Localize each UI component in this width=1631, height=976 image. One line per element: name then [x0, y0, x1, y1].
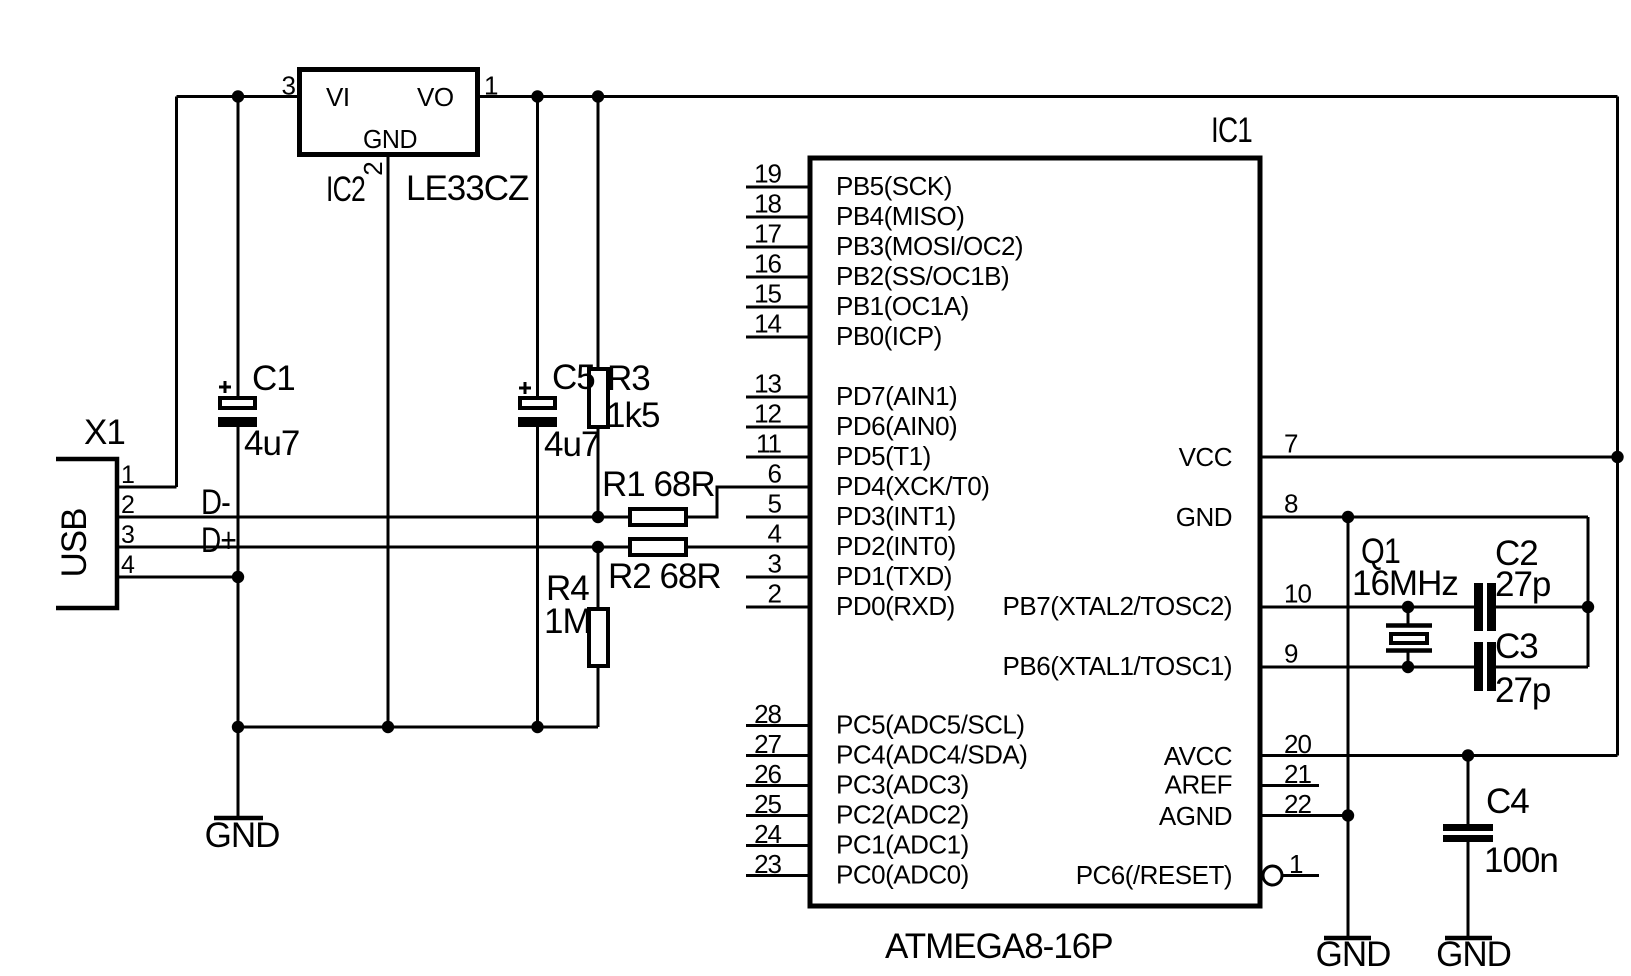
ground symbol below C1	[205, 816, 280, 855]
ground symbol below AGND drop	[1316, 935, 1391, 974]
wire IC pin 3 stub	[746, 576, 810, 579]
regulator label IC2	[326, 170, 365, 209]
svg-text:PD7(AIN1): PD7(AIN1)	[836, 381, 957, 411]
IC pin number 23	[754, 849, 781, 879]
svg-text:PB7(XTAL2/TOSC2): PB7(XTAL2/TOSC2)	[1003, 591, 1232, 621]
IC pin label PD4(XCK/T0)	[836, 471, 989, 501]
wire R2 to IC pin 4	[688, 546, 810, 549]
IC pin number 9	[1284, 639, 1298, 669]
junction node GND rail at regulator	[382, 721, 394, 733]
svg-text:AGND: AGND	[1159, 801, 1232, 831]
wire top 3V3 rail right segment	[478, 95, 1618, 98]
svg-text:27: 27	[754, 729, 781, 759]
wire D+ net	[117, 546, 628, 549]
svg-text:27p: 27p	[1495, 565, 1550, 604]
connector X1 pin number 2	[121, 491, 135, 519]
svg-text:PB1(OC1A): PB1(OC1A)	[836, 291, 969, 321]
svg-text:R3: R3	[607, 359, 650, 398]
svg-text:13: 13	[754, 369, 781, 399]
wire AGND pin 22	[1258, 814, 1348, 817]
svg-text:4: 4	[121, 551, 135, 579]
svg-text:PC3(ADC3): PC3(ADC3)	[836, 770, 969, 800]
svg-text:16MHz: 16MHz	[1352, 564, 1458, 603]
capacitor C1 label	[252, 359, 295, 398]
IC pin number 2	[768, 579, 782, 609]
IC pin label VCC	[1179, 442, 1232, 472]
wire XTAL1 pin 9 right segment	[1496, 666, 1588, 669]
IC pin number 3	[768, 549, 782, 579]
svg-text:1: 1	[1289, 849, 1303, 879]
capacitor C2 value 27p	[1495, 565, 1550, 604]
IC pin label PB4(MISO)	[836, 201, 964, 231]
IC pin number 27	[754, 729, 781, 759]
svg-text:14: 14	[754, 309, 781, 339]
wire IC pin 11 stub	[746, 456, 810, 459]
svg-text:1k5: 1k5	[606, 396, 659, 435]
resistor R3 label	[607, 359, 650, 398]
wire RESET pin 1 stub	[1283, 874, 1319, 877]
wire bottom GND rail	[238, 726, 598, 729]
IC reset pin inversion circle	[1263, 866, 1282, 885]
svg-text:12: 12	[754, 399, 781, 429]
svg-text:D+: D+	[201, 521, 236, 560]
svg-text:PC5(ADC5/SCL): PC5(ADC5/SCL)	[836, 710, 1025, 740]
IC pin label PD1(TXD)	[836, 561, 952, 591]
IC pin label PD2(INT0)	[836, 531, 956, 561]
IC pin label PC3(ADC3)	[836, 770, 969, 800]
svg-text:PB4(MISO): PB4(MISO)	[836, 201, 964, 231]
svg-text:PC1(ADC1): PC1(ADC1)	[836, 830, 969, 860]
wire IC pin 28 stub	[746, 724, 810, 727]
IC pin label PD3(INT1)	[836, 501, 956, 531]
voltage regulator IC2 box	[300, 70, 478, 155]
svg-text:IC2: IC2	[326, 170, 365, 209]
svg-text:IC1: IC1	[1211, 111, 1252, 150]
wire IC pin 24 stub	[746, 844, 810, 847]
svg-text:PB2(SS/OC1B): PB2(SS/OC1B)	[836, 261, 1009, 291]
wire XTAL2 pin 10 left segment	[1258, 606, 1474, 609]
wire IC pin 23 stub	[746, 874, 810, 877]
IC pin label PC6(/RESET)	[1076, 860, 1232, 890]
connector X1 pin number 4	[121, 551, 135, 579]
capacitor C5 value 4u7	[544, 425, 599, 464]
resistor R1	[630, 509, 686, 525]
svg-text:16: 16	[754, 249, 781, 279]
capacitor C2 label	[1495, 534, 1538, 573]
regulator pin number 1	[484, 71, 498, 101]
capacitor C4 value 100n	[1484, 841, 1558, 880]
wire C1 branch upper	[237, 97, 240, 399]
wire IC pin 27 stub	[746, 754, 810, 757]
wire IC pin 19 stub	[746, 186, 810, 189]
IC1 reference label	[1211, 111, 1252, 150]
junction node VCC right rail	[1611, 451, 1623, 463]
wire C4 top connection	[1467, 756, 1470, 825]
wire GND stem below C1	[237, 727, 240, 816]
wire R4 top connection to D+	[597, 547, 600, 607]
IC pin label PD5(T1)	[836, 441, 931, 471]
wire C1 branch lower to GND rail	[237, 426, 240, 727]
regulator pin name GND	[363, 124, 417, 154]
wire IC pin 17 stub	[746, 246, 810, 249]
wire R1 to IC pin 6 jog	[688, 487, 810, 517]
svg-text:18: 18	[754, 189, 781, 219]
IC pin number 26	[754, 759, 781, 789]
IC pin number 8	[1284, 489, 1298, 519]
junction node on rail at C5	[531, 90, 543, 102]
crystal Q1 label	[1361, 532, 1400, 571]
regulator pin number 2 rotated	[358, 162, 388, 176]
svg-text:VI: VI	[326, 82, 350, 112]
svg-text:3: 3	[768, 549, 782, 579]
regulator pin number 3	[282, 71, 296, 101]
resistor R2	[630, 539, 686, 555]
svg-text:PD0(RXD): PD0(RXD)	[836, 591, 955, 621]
IC U1 ATMEGA8 box	[810, 158, 1260, 906]
IC pin label PB2(SS/OC1B)	[836, 261, 1009, 291]
IC pin number 14	[754, 309, 781, 339]
capacitor C1 polarized	[218, 381, 257, 427]
resistor R4	[589, 609, 608, 666]
crystal Q1 value 16MHz	[1352, 564, 1458, 603]
wire far right VCC rail vertical	[1616, 97, 1619, 756]
IC pin number 22	[1284, 789, 1311, 819]
IC pin label PB5(SCK)	[836, 171, 952, 201]
capacitor C2 plates	[1474, 583, 1496, 631]
wire R3 to D- node	[597, 428, 600, 517]
junction node AVCC at C4	[1462, 749, 1474, 761]
svg-text:PD3(INT1): PD3(INT1)	[836, 501, 956, 531]
IC pin number 19	[754, 159, 781, 189]
junction node crystal top	[1402, 601, 1414, 613]
svg-text:1: 1	[484, 71, 498, 101]
svg-text:27p: 27p	[1495, 671, 1550, 710]
svg-text:PB6(XTAL1/TOSC1): PB6(XTAL1/TOSC1)	[1003, 651, 1232, 681]
svg-text:8: 8	[1284, 489, 1298, 519]
regulator value LE33CZ	[406, 169, 529, 208]
connector X1 USB body	[56, 459, 117, 608]
svg-text:9: 9	[1284, 639, 1298, 669]
ground symbol below C4	[1436, 935, 1511, 974]
resistor R3 value 1k5	[606, 396, 659, 435]
IC pin label PC1(ADC1)	[836, 830, 969, 860]
capacitor C3 plates	[1474, 642, 1496, 691]
IC pin number 4	[768, 519, 782, 549]
connector X1 pin number 1	[121, 461, 135, 489]
svg-text:GND: GND	[205, 816, 280, 855]
IC pin label PB0(ICP)	[836, 321, 942, 351]
junction node AGND drop	[1342, 809, 1354, 821]
junction node crystal bottom	[1402, 661, 1414, 673]
svg-text:C3: C3	[1495, 627, 1538, 666]
resistor R4 label	[546, 569, 589, 608]
svg-text:17: 17	[754, 219, 781, 249]
svg-text:19: 19	[754, 159, 781, 189]
wire top +5V rail left segment	[177, 95, 301, 98]
wire crystal cap ground loop vertical	[1587, 517, 1590, 667]
svg-text:20: 20	[1284, 729, 1311, 759]
svg-text:3: 3	[121, 521, 135, 549]
svg-text:C1: C1	[252, 359, 295, 398]
junction node GND rail at C5	[531, 721, 543, 733]
IC pin number 10	[1284, 579, 1311, 609]
svg-text:AREF: AREF	[1165, 770, 1232, 800]
IC pin number 21	[1284, 759, 1311, 789]
svg-text:PC2(ADC2): PC2(ADC2)	[836, 800, 969, 830]
svg-text:PD2(INT0): PD2(INT0)	[836, 531, 956, 561]
svg-text:PC0(ADC0): PC0(ADC0)	[836, 860, 969, 890]
svg-text:R2 68R: R2 68R	[608, 557, 721, 596]
IC pin number 20	[1284, 729, 1311, 759]
svg-text:PC6(/RESET): PC6(/RESET)	[1076, 860, 1232, 890]
svg-text:PD5(T1): PD5(T1)	[836, 441, 931, 471]
crystal Q1 symbol	[1386, 626, 1432, 651]
svg-text:100n: 100n	[1484, 841, 1558, 880]
svg-text:PC4(ADC4/SDA): PC4(ADC4/SDA)	[836, 740, 1027, 770]
svg-text:VO: VO	[417, 82, 454, 112]
IC pin number 13	[754, 369, 781, 399]
svg-text:LE33CZ: LE33CZ	[406, 169, 529, 208]
wire XTAL2 pin 10 right segment	[1496, 606, 1588, 609]
IC pin label PC2(ADC2)	[836, 800, 969, 830]
resistor R4 value 1M	[544, 602, 591, 641]
svg-text:PD1(TXD): PD1(TXD)	[836, 561, 952, 591]
svg-text:PB0(ICP): PB0(ICP)	[836, 321, 942, 351]
junction node on rail at R3	[592, 90, 604, 102]
IC pin number 16	[754, 249, 781, 279]
IC pin number 5	[768, 489, 782, 519]
svg-text:2: 2	[121, 491, 135, 519]
IC pin label PB3(MOSI/OC2)	[836, 231, 1023, 261]
regulator pin name VI	[326, 82, 350, 112]
svg-text:5: 5	[768, 489, 782, 519]
wire AVCC pin 20 to right rail	[1258, 754, 1618, 757]
capacitor C3 value 27p	[1495, 671, 1550, 710]
IC pin label AGND	[1159, 801, 1232, 831]
IC pin label AREF	[1165, 770, 1232, 800]
IC1 value ATMEGA8-16P	[885, 927, 1113, 966]
capacitor C1 value 4u7	[244, 424, 299, 463]
svg-text:USB: USB	[55, 509, 94, 578]
svg-text:24: 24	[754, 819, 781, 849]
svg-text:GND: GND	[1176, 502, 1232, 532]
svg-text:X1: X1	[84, 413, 125, 452]
connector X1 label	[84, 413, 125, 452]
svg-text:22: 22	[1284, 789, 1311, 819]
svg-text:C4: C4	[1486, 782, 1529, 821]
resistor R3	[589, 369, 608, 427]
svg-text:4u7: 4u7	[544, 425, 599, 464]
IC pin number 18	[754, 189, 781, 219]
wire VCC pin 7 to right rail	[1258, 456, 1618, 459]
wire D- net	[117, 516, 628, 519]
wire IC pin 18 stub	[746, 216, 810, 219]
IC pin label PB7(XTAL2/TOSC2)	[1003, 591, 1232, 621]
wire regulator GND pin 2 drop	[387, 157, 390, 727]
svg-text:GND: GND	[1436, 935, 1511, 974]
svg-text:GND: GND	[363, 124, 417, 154]
svg-text:GND: GND	[1316, 935, 1391, 974]
resistor R1 label R1 68R	[602, 465, 715, 504]
svg-text:21: 21	[1284, 759, 1311, 789]
svg-text:26: 26	[754, 759, 781, 789]
capacitor C5 label	[552, 358, 595, 397]
IC pin label PD6(AIN0)	[836, 411, 957, 441]
junction node USB pin4 ground	[232, 571, 244, 583]
wire IC pin 25 stub	[746, 814, 810, 817]
wire XTAL1 pin 9 left segment	[1258, 666, 1474, 669]
wire R4 bottom to GND rail	[597, 667, 600, 727]
svg-text:6: 6	[768, 459, 782, 489]
svg-text:10: 10	[1284, 579, 1311, 609]
junction node D- at R3/R1	[592, 511, 604, 523]
wire IC pin 14 stub	[746, 336, 810, 339]
resistor R2 label R2 68R	[608, 557, 721, 596]
IC pin number 6	[768, 459, 782, 489]
wire C5 branch lower to GND rail	[536, 426, 539, 727]
wire IC pin 15 stub	[746, 306, 810, 309]
svg-text:ATMEGA8-16P: ATMEGA8-16P	[885, 927, 1113, 966]
svg-text:15: 15	[754, 279, 781, 309]
IC pin label PC4(ADC4/SDA)	[836, 740, 1027, 770]
svg-text:PB5(SCK): PB5(SCK)	[836, 171, 952, 201]
junction node GND pin8 drop	[1342, 511, 1354, 523]
junction node D+ at R4/R2	[592, 541, 604, 553]
wire C5 branch upper	[536, 97, 539, 399]
svg-text:PD6(AIN0): PD6(AIN0)	[836, 411, 957, 441]
IC pin label PC5(ADC5/SCL)	[836, 710, 1025, 740]
wire IC pin 16 stub	[746, 276, 810, 279]
svg-text:28: 28	[754, 699, 781, 729]
IC pin label PD0(RXD)	[836, 591, 955, 621]
IC pin number 17	[754, 219, 781, 249]
wire GND pin 8 net	[1258, 516, 1588, 519]
IC pin number 24	[754, 819, 781, 849]
svg-text:4: 4	[768, 519, 782, 549]
svg-text:1: 1	[121, 461, 135, 489]
IC pin number 28	[754, 699, 781, 729]
capacitor C3 label	[1495, 627, 1538, 666]
svg-text:VCC: VCC	[1179, 442, 1232, 472]
IC pin label GND	[1176, 502, 1232, 532]
svg-text:7: 7	[1284, 429, 1298, 459]
wire IC pin 2 stub	[746, 606, 810, 609]
node D+ label	[201, 521, 236, 560]
IC pin label PB1(OC1A)	[836, 291, 969, 321]
svg-text:PD4(XCK/T0): PD4(XCK/T0)	[836, 471, 989, 501]
wire GND drop from pin 8 node	[1347, 517, 1350, 936]
IC pin number 1	[1289, 849, 1303, 879]
wire USB pin 4 to ground node	[117, 576, 238, 579]
svg-text:D-: D-	[201, 483, 230, 522]
capacitor C4 label	[1486, 782, 1529, 821]
IC pin number 12	[754, 399, 781, 429]
wire IC pin 5 stub	[746, 516, 810, 519]
junction node C2 to ground loop	[1582, 601, 1594, 613]
connector X1 pin number 3	[121, 521, 135, 549]
wire AREF pin 21 stub	[1258, 784, 1319, 787]
svg-text:25: 25	[754, 789, 781, 819]
wire left drop from rail to USB pin 1	[117, 97, 177, 488]
wire R3 branch from rail	[597, 97, 600, 369]
svg-text:1M: 1M	[544, 602, 591, 641]
IC pin number 25	[754, 789, 781, 819]
IC pin label PB6(XTAL1/TOSC1)	[1003, 651, 1232, 681]
capacitor C5 polarized	[518, 382, 557, 427]
svg-text:3: 3	[282, 71, 296, 101]
wire IC pin 12 stub	[746, 426, 810, 429]
wire crystal top stem	[1407, 607, 1410, 625]
wire IC pin 13 stub	[746, 396, 810, 399]
capacitor C4 plates	[1443, 824, 1493, 842]
IC pin label AVCC	[1164, 741, 1232, 771]
wire IC pin 26 stub	[746, 784, 810, 787]
svg-text:2: 2	[768, 579, 782, 609]
IC pin label PC0(ADC0)	[836, 860, 969, 890]
svg-text:4u7: 4u7	[244, 424, 299, 463]
junction node on rail at C1	[232, 90, 244, 102]
svg-text:23: 23	[754, 849, 781, 879]
IC pin number 7	[1284, 429, 1298, 459]
IC pin label PD7(AIN1)	[836, 381, 957, 411]
junction node GND rail at C1	[232, 721, 244, 733]
svg-text:11: 11	[756, 429, 782, 459]
wire crystal bottom stem	[1407, 651, 1410, 667]
svg-text:AVCC: AVCC	[1164, 741, 1232, 771]
wire C4 bottom to GND	[1467, 842, 1470, 936]
connector USB rotated name	[55, 509, 94, 578]
svg-text:R1 68R: R1 68R	[602, 465, 715, 504]
node D- label	[201, 483, 230, 522]
regulator pin name VO	[417, 82, 454, 112]
IC pin number 11	[756, 429, 782, 459]
svg-text:PB3(MOSI/OC2): PB3(MOSI/OC2)	[836, 231, 1023, 261]
IC pin number 15	[754, 279, 781, 309]
